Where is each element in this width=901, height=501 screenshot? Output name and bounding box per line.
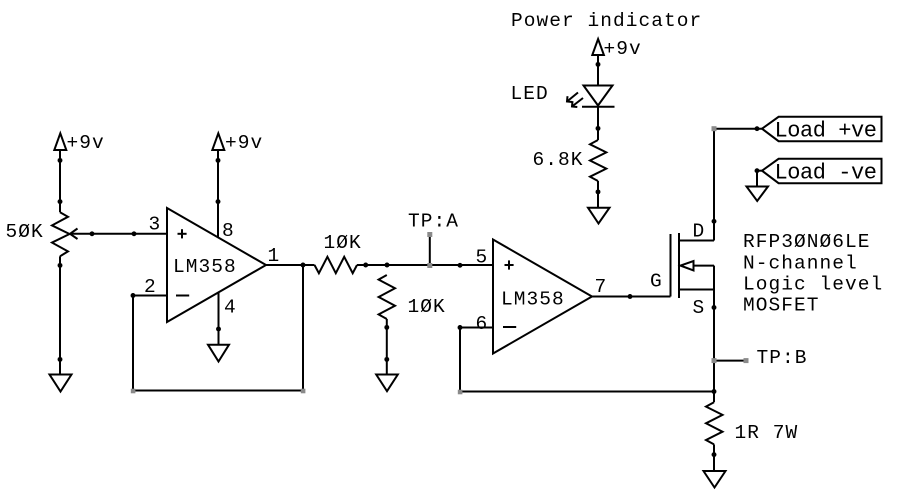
svg-text:2: 2 bbox=[144, 276, 157, 298]
svg-text:Logic level: Logic level bbox=[743, 274, 883, 296]
svg-text:MOSFET: MOSFET bbox=[743, 295, 820, 317]
svg-text:Power indicator: Power indicator bbox=[511, 10, 702, 32]
svg-text:LM358: LM358 bbox=[173, 256, 237, 278]
svg-text:+9v: +9v bbox=[67, 132, 105, 154]
svg-text:TP:A: TP:A bbox=[408, 211, 459, 233]
svg-text:1ØK: 1ØK bbox=[408, 296, 446, 318]
svg-text:S: S bbox=[693, 297, 706, 319]
svg-text:TP:B: TP:B bbox=[757, 347, 808, 369]
svg-text:+9v: +9v bbox=[225, 132, 263, 154]
svg-text:1: 1 bbox=[268, 245, 281, 267]
svg-text:D: D bbox=[693, 221, 706, 243]
svg-text:5: 5 bbox=[476, 247, 489, 269]
svg-text:8: 8 bbox=[222, 220, 235, 242]
svg-text:+9v: +9v bbox=[604, 38, 642, 60]
svg-text:Load -ve: Load -ve bbox=[775, 161, 877, 186]
svg-text:4: 4 bbox=[224, 297, 237, 319]
svg-text:Load +ve: Load +ve bbox=[775, 119, 877, 144]
svg-text:6.8K: 6.8K bbox=[533, 149, 584, 171]
svg-text:6: 6 bbox=[476, 313, 489, 335]
svg-text:7: 7 bbox=[595, 276, 608, 298]
svg-text:3: 3 bbox=[149, 214, 162, 236]
svg-text:LM358: LM358 bbox=[501, 289, 565, 311]
svg-text:1ØK: 1ØK bbox=[324, 232, 362, 254]
svg-text:G: G bbox=[650, 271, 663, 293]
svg-text:N-channel: N-channel bbox=[743, 253, 858, 275]
svg-text:LED: LED bbox=[511, 83, 549, 105]
svg-text:1R 7W: 1R 7W bbox=[735, 422, 799, 444]
svg-text:5ØK: 5ØK bbox=[6, 221, 44, 243]
svg-text:RFP3ØNØ6LE: RFP3ØNØ6LE bbox=[743, 231, 871, 253]
